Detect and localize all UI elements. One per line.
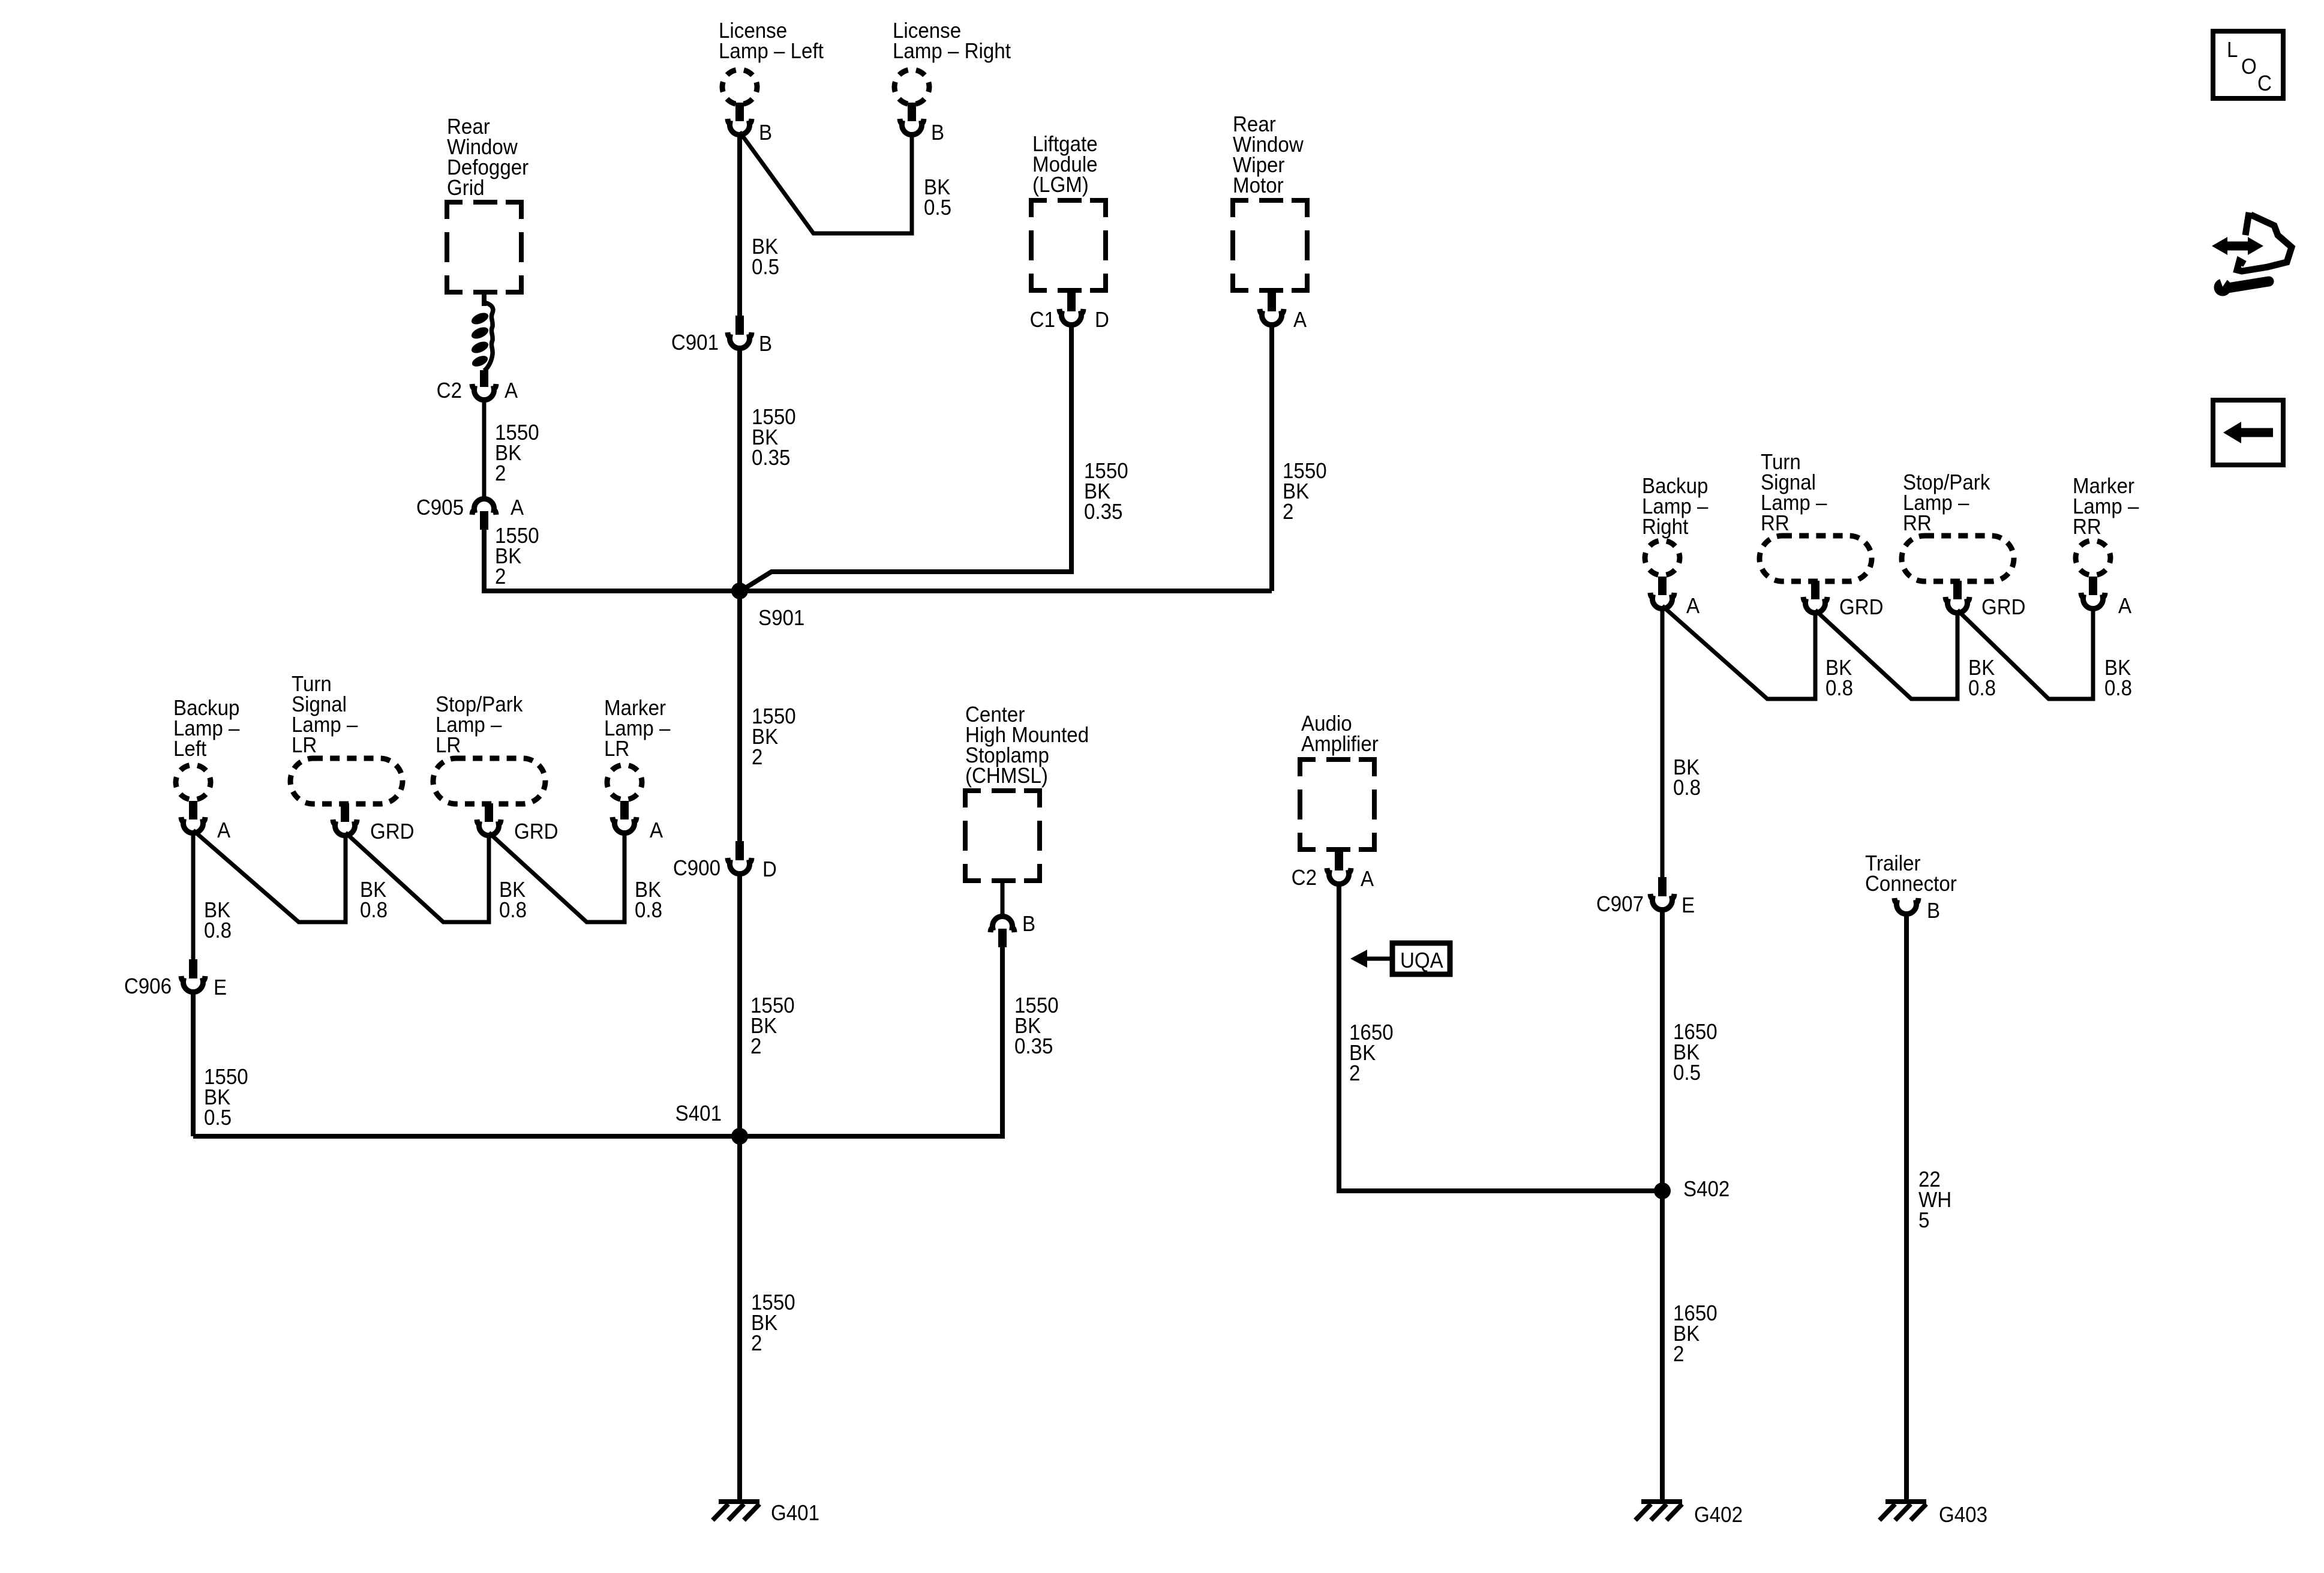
label pin B C901: [759, 332, 772, 356]
audio amplifier box: [1300, 760, 1374, 849]
wire zigzag backup to turn signal LR: [193, 830, 346, 922]
wire S401 bus left: [193, 1134, 740, 1139]
svg-text:GRD: GRD: [370, 820, 415, 844]
svg-text:1550BK2: 1550BK2: [752, 705, 796, 770]
label pin A C905: [511, 496, 524, 520]
liftgate module box: [1031, 200, 1106, 290]
svg-text:C900: C900: [673, 857, 720, 881]
label wire 1550 BK 2 to G401: [751, 1291, 795, 1356]
label pin B CHMSL: [1022, 912, 1035, 936]
label pin D C900: [762, 858, 777, 882]
label stop/park lamp RR: [1903, 471, 1990, 536]
wire license left to C901: [737, 132, 742, 316]
label wire BK 0.8 turn LR: [360, 878, 388, 923]
wire zigzag backup right to turn signal RR: [1662, 606, 1815, 699]
wire zigzag turn signal RR to stop/park RR: [1815, 610, 1957, 699]
label pin GRD turn RR: [1839, 596, 1884, 620]
UQA callout arrow: [1350, 950, 1391, 968]
label pin A marker RR: [2118, 595, 2131, 619]
label pin A marker LR: [650, 819, 663, 843]
connector C2 amp stub: [1335, 851, 1343, 870]
svg-text:BK0.5: BK0.5: [924, 176, 951, 220]
svg-text:A: A: [2118, 595, 2131, 619]
label wire 1650 BK 0.5 C907: [1673, 1020, 1718, 1085]
svg-text:CenterHigh MountedStoplamp(CHM: CenterHigh MountedStoplamp(CHMSL): [965, 703, 1089, 788]
svg-text:E: E: [1682, 894, 1695, 918]
svg-text:A: A: [505, 379, 518, 403]
label CHMSL: [965, 703, 1089, 788]
connector cup A wiper: [1260, 309, 1284, 325]
backup lamp left symbol: [176, 765, 211, 800]
svg-text:A: A: [1686, 595, 1700, 619]
label wire 1650 BK 2 amp: [1349, 1021, 1394, 1086]
svg-text:1550BK2: 1550BK2: [1283, 460, 1327, 524]
svg-text:BK0.8: BK0.8: [1673, 756, 1701, 800]
svg-text:L: L: [2227, 38, 2238, 62]
label rear window defogger grid: [447, 115, 529, 200]
svg-text:1550BK0.35: 1550BK0.35: [1014, 994, 1059, 1059]
svg-text:BK0.8: BK0.8: [635, 878, 662, 923]
label trailer connector: [1865, 852, 1957, 896]
svg-text:1650BK2: 1650BK2: [1673, 1302, 1718, 1367]
turn signal RR connector stub and cup GRD: [1803, 581, 1827, 613]
marker lamp LR symbol: [607, 765, 642, 800]
wire trailer connector to G403: [1904, 911, 1909, 1502]
connector C2 defogger cup: [472, 384, 496, 400]
service icon double arrow: [2212, 237, 2263, 255]
label pin B trailer: [1927, 899, 1940, 923]
turn signal lamp RR symbol: [1759, 536, 1872, 581]
svg-text:G402: G402: [1694, 1503, 1743, 1527]
svg-text:BK0.8: BK0.8: [499, 878, 527, 923]
connector CHMSL stub: [998, 929, 1007, 947]
marker lamp RR connector stub and cup A: [2081, 577, 2105, 609]
trailer connector cup B: [1894, 898, 1918, 914]
svg-text:BackupLamp –Right: BackupLamp –Right: [1642, 475, 1709, 539]
svg-text:AudioAmplifier: AudioAmplifier: [1301, 712, 1379, 757]
svg-text:C907: C907: [1596, 893, 1644, 917]
label wire BK 0.8 stop RR: [1968, 656, 1996, 701]
svg-text:1550BK0.35: 1550BK0.35: [752, 406, 796, 470]
label C1 liftgate: [1030, 308, 1055, 332]
label license lamp left: [719, 19, 824, 64]
back arrow: [2223, 422, 2273, 443]
svg-text:1550BK2: 1550BK2: [750, 994, 795, 1059]
wire amp down and right to S402: [1339, 881, 1662, 1191]
wire C905 down to corner: [484, 530, 737, 591]
wire liftgate down and left to S901: [740, 322, 1071, 592]
label C901: [671, 331, 719, 355]
svg-text:BK0.8: BK0.8: [1968, 656, 1996, 701]
connector C900: [728, 841, 752, 874]
svg-text:C2: C2: [1292, 866, 1317, 890]
connector C2 amp cup A: [1327, 868, 1351, 884]
wire CHMSL to S401 bus: [740, 947, 1002, 1136]
svg-text:G401: G401: [771, 1502, 819, 1526]
label marker lamp RR: [2073, 475, 2139, 539]
connector C1 stub liftgate: [1067, 292, 1076, 311]
splice S401: [731, 1128, 748, 1145]
label pin GRD turn LR: [370, 820, 415, 844]
ground G401: [713, 1502, 759, 1520]
wire wiper motor down: [1269, 322, 1274, 591]
label backup lamp right: [1642, 475, 1709, 539]
wire C2 to C905: [482, 397, 487, 497]
svg-text:B: B: [759, 121, 772, 145]
marker lamp RR symbol: [2076, 541, 2110, 575]
connector C901: [728, 316, 752, 349]
wire zigzag turn signal to stop/park LR: [346, 833, 489, 922]
svg-text:A: A: [217, 819, 230, 843]
label pin E C906: [214, 976, 227, 1000]
backup lamp right connector stub and cup A: [1650, 577, 1674, 609]
svg-text:C901: C901: [671, 331, 719, 355]
connector C905 stub: [480, 511, 488, 530]
svg-text:RearWindowWiperMotor: RearWindowWiperMotor: [1233, 113, 1304, 198]
svg-text:1550BK2: 1550BK2: [495, 524, 539, 589]
UQA callout box: [1392, 943, 1450, 974]
svg-text:TurnSignalLamp –LR: TurnSignalLamp –LR: [292, 673, 358, 758]
label ground G403: [1939, 1503, 1987, 1527]
connector C1 cup D: [1059, 309, 1083, 325]
label pin A backup right: [1686, 595, 1700, 619]
svg-text:BK0.5: BK0.5: [752, 235, 779, 280]
label wire 1550 BK 2 defogger lower: [495, 524, 539, 589]
svg-text:LicenseLamp – Right: LicenseLamp – Right: [893, 19, 1011, 64]
wire S901 to C900: [737, 591, 742, 841]
svg-text:RearWindowDefoggerGrid: RearWindowDefoggerGrid: [447, 115, 529, 200]
wire S401 to G401: [737, 1136, 742, 1502]
rear window wiper motor box: [1233, 200, 1307, 290]
stop/park lamp RR symbol: [1902, 536, 2014, 581]
label pin D liftgate: [1095, 308, 1109, 332]
label wire 22 WH 5 trailer: [1918, 1168, 1951, 1233]
label wire BK 0.8 stop LR: [499, 878, 527, 923]
label pin A C2 defogger: [505, 379, 518, 403]
label pin A amp: [1361, 867, 1374, 891]
label splice S402: [1683, 1178, 1730, 1202]
svg-text:S402: S402: [1683, 1178, 1730, 1202]
label splice S401: [675, 1102, 722, 1126]
svg-text:LicenseLamp – Left: LicenseLamp – Left: [719, 19, 824, 64]
svg-text:C905: C905: [416, 496, 464, 520]
label wire 1550 BK 0.35 CHMSL: [1014, 994, 1059, 1059]
svg-text:BK0.8: BK0.8: [2104, 656, 2132, 701]
svg-text:TrailerConnector: TrailerConnector: [1865, 852, 1957, 896]
svg-text:C906: C906: [124, 975, 172, 999]
label license lamp right: [893, 19, 1011, 64]
wire C907 to S402: [1660, 907, 1665, 1191]
connector stub wiper: [1268, 292, 1276, 311]
connector C906: [181, 959, 205, 992]
wire C906 to S401 bus corner: [191, 989, 196, 1136]
service icon wrench: [2214, 274, 2269, 296]
svg-text:B: B: [1022, 912, 1035, 936]
license lamp left symbol: [722, 70, 757, 104]
svg-text:UQA: UQA: [1400, 949, 1443, 973]
ground G402: [1635, 1502, 1682, 1520]
stop/park lamp LR symbol: [433, 758, 545, 804]
svg-text:D: D: [762, 858, 777, 882]
svg-text:A: A: [650, 819, 663, 843]
label C900: [673, 857, 720, 881]
back arrow legend box: [2213, 400, 2283, 465]
label wire BK 0.8 backup right: [1673, 756, 1701, 800]
label C905: [416, 496, 464, 520]
backup lamp left connector stub and cup A: [181, 801, 205, 833]
label C907: [1596, 893, 1644, 917]
svg-text:1550BK0.5: 1550BK0.5: [204, 1065, 248, 1130]
letter O in LOC: [2241, 55, 2257, 79]
label rear window wiper motor: [1233, 113, 1304, 198]
resistive grid coil: [470, 311, 490, 369]
wire CHMSL box to connector: [1001, 881, 1005, 915]
svg-text:E: E: [214, 976, 227, 1000]
svg-text:TurnSignalLamp –RR: TurnSignalLamp –RR: [1761, 451, 1827, 536]
letter L in LOC: [2227, 38, 2238, 62]
svg-text:1650BK0.5: 1650BK0.5: [1673, 1020, 1718, 1085]
svg-text:1550BK2: 1550BK2: [751, 1291, 795, 1356]
label audio amplifier: [1301, 712, 1379, 757]
svg-text:D: D: [1095, 308, 1109, 332]
label wire BK 0.8 turn RR: [1825, 656, 1853, 701]
label wire 1650 BK 2 to G402: [1673, 1302, 1718, 1367]
label turn signal lamp RR: [1761, 451, 1827, 536]
label wire 1550 BK 2 trunk mid: [752, 705, 796, 770]
wire backup right to C907: [1661, 606, 1665, 877]
letter C in LOC: [2257, 72, 2272, 96]
ground G403: [1879, 1502, 1926, 1520]
rear window defogger grid box: [447, 202, 521, 292]
label wire 1550 BK 2 defogger upper: [495, 421, 539, 486]
label pin A backup left: [217, 819, 230, 843]
wire C900 to S401: [737, 871, 742, 1136]
svg-text:Stop/ParkLamp –LR: Stop/ParkLamp –LR: [436, 693, 523, 758]
svg-text:GRD: GRD: [1981, 596, 2026, 620]
wire defogger box to coil: [482, 290, 487, 306]
svg-text:C1: C1: [1030, 308, 1055, 332]
splice S901: [731, 583, 748, 599]
wire backup left to C906: [191, 830, 196, 959]
license lamp right symbol: [894, 70, 929, 104]
svg-text:MarkerLamp –LR: MarkerLamp –LR: [604, 697, 671, 761]
wire C901 to S901: [737, 346, 742, 591]
connector CHMSL cup B: [990, 916, 1014, 932]
label pin GRD stop LR: [514, 820, 559, 844]
turn signal lamp LR symbol: [290, 758, 403, 804]
label wire 1550 BK 0.35 liftgate: [1084, 460, 1128, 524]
LOC legend box: [2213, 31, 2283, 98]
label wire 1550 BK 0.35 trunk: [752, 406, 796, 470]
connector C2 defogger stub: [480, 370, 488, 387]
svg-text:C: C: [2257, 72, 2272, 96]
svg-text:1550BK0.35: 1550BK0.35: [1084, 460, 1128, 524]
wire zigzag stop/park RR to marker RR: [1957, 606, 2093, 699]
license lamp left connector stub and cup B: [728, 103, 752, 135]
label splice S901: [758, 607, 804, 631]
label pin B license right: [931, 121, 944, 145]
svg-text:1650BK2: 1650BK2: [1349, 1021, 1394, 1086]
svg-text:G403: G403: [1939, 1503, 1987, 1527]
svg-text:S901: S901: [758, 607, 804, 631]
label wire BK 0.5 right license: [924, 176, 951, 220]
wire S402 to G402: [1660, 1191, 1665, 1502]
label marker lamp LR: [604, 697, 671, 761]
splice S402: [1654, 1182, 1671, 1199]
svg-text:O: O: [2241, 55, 2257, 79]
turn signal LR connector stub and cup GRD: [333, 803, 357, 836]
label wire BK 0.8 marker RR: [2104, 656, 2132, 701]
wire diagonal license left to link: [740, 132, 912, 233]
svg-text:BK0.8: BK0.8: [204, 899, 232, 943]
label liftgate module: [1032, 133, 1098, 197]
service icon vehicle outline: [2237, 212, 2292, 271]
label wire 1550 BK 2 wiper: [1283, 460, 1327, 524]
label wire BK 0.8 marker LR: [635, 878, 662, 923]
svg-text:GRD: GRD: [1839, 596, 1884, 620]
svg-text:BK0.8: BK0.8: [1825, 656, 1853, 701]
label pin E C907: [1682, 894, 1695, 918]
connector C907: [1650, 877, 1674, 910]
label C906: [124, 975, 172, 999]
svg-text:LiftgateModule(LGM): LiftgateModule(LGM): [1032, 133, 1098, 197]
CHMSL box: [965, 791, 1040, 881]
label wire 1550 BK 0.5 C906: [204, 1065, 248, 1130]
label pin B license left: [759, 121, 772, 145]
svg-text:MarkerLamp –RR: MarkerLamp –RR: [2073, 475, 2139, 539]
label pin GRD stop RR: [1981, 596, 2026, 620]
svg-text:BK0.8: BK0.8: [360, 878, 388, 923]
label ground G402: [1694, 1503, 1743, 1527]
svg-text:1550BK2: 1550BK2: [495, 421, 539, 486]
svg-text:Stop/ParkLamp –RR: Stop/ParkLamp –RR: [1903, 471, 1990, 536]
connector C905 cup: [472, 499, 496, 515]
svg-text:B: B: [1927, 899, 1940, 923]
svg-text:22WH5: 22WH5: [1918, 1168, 1951, 1233]
label ground G401: [771, 1502, 819, 1526]
label wire 1550 BK 2 below C900: [750, 994, 795, 1059]
label wire BK 0.5 left license: [752, 235, 779, 280]
svg-text:B: B: [931, 121, 944, 145]
label UQA: [1400, 949, 1443, 973]
label pin A wiper: [1293, 308, 1307, 332]
label C2 defogger: [437, 379, 462, 403]
svg-text:BackupLamp –Left: BackupLamp –Left: [173, 697, 240, 761]
label backup lamp left: [173, 697, 240, 761]
svg-text:A: A: [1361, 867, 1374, 891]
wire bus S901 horizontal: [484, 589, 1272, 593]
license lamp right connector stub and cup B: [900, 103, 924, 135]
label turn signal lamp LR: [292, 673, 358, 758]
label C2 amp: [1292, 866, 1317, 890]
svg-text:C2: C2: [437, 379, 462, 403]
wire zigzag stop/park to marker LR: [489, 830, 624, 922]
svg-text:B: B: [759, 332, 772, 356]
svg-text:A: A: [511, 496, 524, 520]
stop/park LR connector stub and cup GRD: [477, 803, 501, 836]
stop/park RR connector stub and cup GRD: [1945, 581, 1969, 613]
svg-text:GRD: GRD: [514, 820, 559, 844]
backup lamp right symbol: [1645, 541, 1680, 575]
label stop/park lamp LR: [436, 693, 523, 758]
marker lamp LR connector stub and cup A: [612, 801, 636, 833]
svg-text:A: A: [1293, 308, 1307, 332]
label wire BK 0.8 backup left: [204, 899, 232, 943]
svg-text:S401: S401: [675, 1102, 722, 1126]
